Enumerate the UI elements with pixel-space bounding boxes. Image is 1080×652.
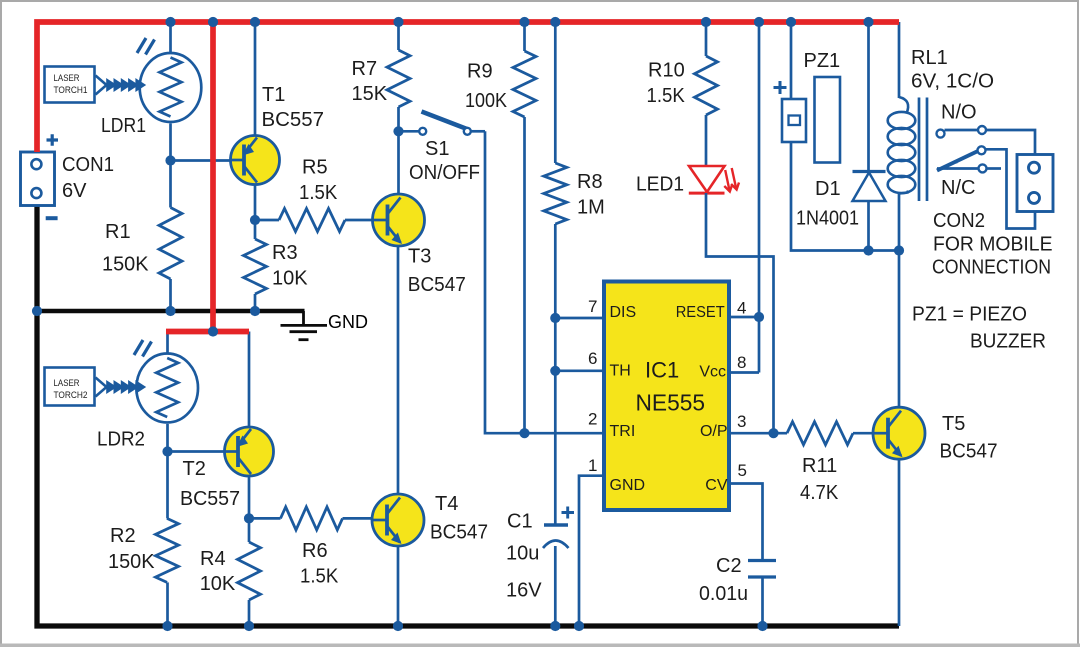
svg-text:BC557: BC557 <box>180 488 240 510</box>
svg-text:LDR1: LDR1 <box>101 115 146 137</box>
wire R2 to ground bus <box>166 582 169 626</box>
svg-text:CON2: CON2 <box>933 210 985 232</box>
LDR2 <box>136 354 198 423</box>
label R4 <box>200 548 236 595</box>
label PZ1 note <box>912 304 1046 353</box>
wire rail to R7 <box>397 22 400 50</box>
label PZ1 plus <box>774 81 787 94</box>
label T3 <box>408 246 466 297</box>
wire D1 anode to parallel bus <box>867 201 870 251</box>
wire red bar to T2 emitter <box>248 332 251 428</box>
node D junction T2/R4/R6 <box>244 513 254 523</box>
wire ground bus from CON1 minus <box>37 205 899 626</box>
svg-text:16V: 16V <box>506 580 542 602</box>
svg-text:5: 5 <box>738 461 747 480</box>
wire T4 emitter to ground bus <box>397 546 400 626</box>
pin 3 number <box>737 412 746 431</box>
node TRI junction <box>519 428 529 438</box>
label LDR1 <box>101 115 146 137</box>
svg-text:TH: TH <box>610 362 631 379</box>
svg-text:T3: T3 <box>408 246 431 268</box>
wire R4 to ground bus <box>248 600 251 626</box>
label LED1 <box>636 174 684 196</box>
svg-text:PZ1 = PIEZO: PZ1 = PIEZO <box>912 304 1027 326</box>
svg-text:BC547: BC547 <box>940 441 998 463</box>
resistor R4 <box>238 542 261 600</box>
wire pin 8 Vcc <box>729 371 759 374</box>
svg-text:T2: T2 <box>183 458 206 480</box>
label N/C <box>941 177 975 199</box>
svg-text:IC1: IC1 <box>645 357 679 382</box>
svg-text:CON1: CON1 <box>62 154 114 176</box>
svg-text:1N4001: 1N4001 <box>796 208 859 230</box>
svg-text:BC547: BC547 <box>408 274 466 296</box>
wire rail to R8 <box>554 22 557 163</box>
node O/P junction <box>768 428 778 438</box>
svg-text:7: 7 <box>588 297 597 316</box>
svg-text:N/O: N/O <box>941 102 977 124</box>
wire red bar above LDR2 stage <box>166 329 249 335</box>
wire R1 to ground bus <box>169 279 172 311</box>
svg-text:10K: 10K <box>200 573 236 595</box>
label T2 <box>180 458 240 510</box>
svg-text:C2: C2 <box>716 555 742 577</box>
label LDR2 <box>97 429 145 451</box>
wire T3 emitter to T4 collector <box>397 246 400 495</box>
svg-text:TORCH2: TORCH2 <box>54 390 88 401</box>
transistor T5 <box>873 407 925 459</box>
svg-text:T5: T5 <box>942 413 965 435</box>
resistor R2 <box>156 518 179 582</box>
svg-text:TORCH1: TORCH1 <box>54 85 88 96</box>
svg-text:DIS: DIS <box>610 304 637 321</box>
svg-text:0.01u: 0.01u <box>699 583 748 605</box>
wire LDR1 to node A <box>169 124 172 161</box>
resistor R3 <box>244 239 267 294</box>
pin 6 number <box>588 349 597 368</box>
svg-text:R10: R10 <box>648 60 685 82</box>
wire R7 to node S <box>397 107 400 131</box>
wire rail to R9 <box>523 22 526 51</box>
svg-text:4: 4 <box>737 299 746 318</box>
svg-text:1.5K: 1.5K <box>647 85 686 107</box>
switch S1 <box>399 112 486 135</box>
svg-text:LED1: LED1 <box>636 174 684 196</box>
laser flash marks LDR2 <box>134 340 152 357</box>
node relay bottom junction <box>894 245 904 255</box>
label T4 <box>430 493 488 544</box>
label R6 <box>300 540 339 588</box>
label R5 <box>299 157 338 205</box>
svg-text:N/C: N/C <box>941 177 975 199</box>
svg-text:PZ1: PZ1 <box>804 50 841 72</box>
wire T2 collector to node D <box>248 476 251 518</box>
IC1 pin name TH <box>610 362 631 379</box>
wire pin 4 RESET <box>729 316 759 319</box>
svg-text:C1: C1 <box>507 511 533 533</box>
svg-text:CONNECTION: CONNECTION <box>932 257 1051 279</box>
svg-text:1.5K: 1.5K <box>300 566 339 588</box>
svg-text:1: 1 <box>588 456 597 475</box>
IC1 pin name O/P <box>700 423 728 440</box>
wire ground branch to GND symbol <box>37 309 305 313</box>
wire T5 emitter to ground bus <box>898 459 901 626</box>
wire rail to R10 <box>705 22 708 56</box>
svg-text:4.7K: 4.7K <box>800 482 839 504</box>
svg-text:GND: GND <box>610 477 646 494</box>
svg-text:R3: R3 <box>272 242 298 264</box>
connector CON1 <box>21 152 55 206</box>
label R3 <box>272 242 308 290</box>
connector CON2 <box>1017 155 1053 212</box>
svg-text:R4: R4 <box>200 548 226 570</box>
svg-text:8: 8 <box>737 353 746 372</box>
svg-text:6: 6 <box>588 349 597 368</box>
IC1 pin name DIS <box>610 304 637 321</box>
wire T2 base <box>168 450 226 453</box>
svg-text:R9: R9 <box>467 61 493 83</box>
IC1 pin name CV <box>705 477 728 494</box>
resistor R5 <box>255 209 373 232</box>
label CON1 <box>62 154 114 202</box>
pin 2 number <box>588 410 597 429</box>
node D1 junction <box>863 245 873 255</box>
wire T1 collector to node B <box>254 185 257 221</box>
label C1 <box>506 511 542 602</box>
node red bar junction <box>208 326 218 336</box>
svg-text:RESET: RESET <box>676 304 725 321</box>
svg-text:R7: R7 <box>352 58 378 80</box>
svg-text:T1: T1 <box>262 84 285 106</box>
svg-text:6V: 6V <box>62 180 87 202</box>
svg-text:100K: 100K <box>465 90 508 112</box>
wire Vcc/RESET to rail <box>758 22 761 373</box>
wire rail to PZ1 <box>790 22 793 99</box>
wire node D to R4 <box>248 518 251 542</box>
IC1 pin name GND <box>610 477 646 494</box>
transistor T2 <box>225 427 274 476</box>
rail junction dots <box>165 17 873 27</box>
label T5 <box>940 413 998 463</box>
svg-text:LASER: LASER <box>54 73 80 84</box>
wire node B to R3 <box>254 220 257 239</box>
svg-text:R8: R8 <box>577 171 603 193</box>
node C junction LDR2/R2/T2 base <box>162 446 172 456</box>
svg-text:TRI: TRI <box>610 423 636 440</box>
label R8 <box>577 171 605 219</box>
pin 1 number <box>588 456 597 475</box>
pin 4 number <box>737 299 746 318</box>
laser torch1 box <box>45 67 95 103</box>
label N/O <box>941 102 977 124</box>
label T1 <box>262 84 325 131</box>
svg-text:BC557: BC557 <box>262 109 325 131</box>
svg-text:D1: D1 <box>815 178 841 200</box>
wire rail to LDR1 <box>169 22 172 52</box>
resistor R7 <box>387 50 410 107</box>
laser flash marks LDR1 <box>137 38 155 55</box>
label R9 <box>465 61 508 113</box>
wire C1 to ground bus <box>554 546 557 626</box>
wire R8 down to C1 <box>554 224 557 525</box>
wire red bar to LDR2 <box>166 332 169 353</box>
label RL1 <box>911 47 994 93</box>
wire PZ1 to parallel bus <box>791 142 899 251</box>
svg-text:10u: 10u <box>506 543 539 565</box>
LDR1 <box>140 53 202 122</box>
pin 8 number <box>737 353 746 372</box>
wire LDR2 to node C <box>166 424 169 452</box>
ground <box>281 311 369 340</box>
svg-text:RL1: RL1 <box>911 47 948 69</box>
label R1 <box>102 221 149 276</box>
svg-text:R6: R6 <box>302 540 328 562</box>
IC1 pin name RESET <box>676 304 725 321</box>
svg-text:150K: 150K <box>102 254 149 276</box>
svg-text:1.5K: 1.5K <box>299 182 338 204</box>
svg-text:Vcc: Vcc <box>699 363 726 380</box>
IC1 label <box>645 357 679 382</box>
svg-text:ON/OFF: ON/OFF <box>409 162 480 184</box>
bottom bus junction dots <box>162 621 767 631</box>
label C2 <box>699 555 748 605</box>
wire pin 3 O/P <box>729 432 787 435</box>
laser torch2 box <box>45 368 95 406</box>
wire node S to T3 collector <box>397 131 400 194</box>
svg-text:T4: T4 <box>435 493 458 515</box>
label R2 <box>108 525 155 573</box>
transistor T4 <box>372 494 424 546</box>
wire node A to R1 <box>169 161 172 208</box>
label R11 <box>800 455 839 504</box>
svg-text:BUZZER: BUZZER <box>970 331 1046 353</box>
label CON1 plus <box>47 134 59 146</box>
node RESET junction <box>754 312 764 322</box>
wire red branch to LDR2 stage <box>210 20 216 329</box>
wire relay coil to T5 collector <box>898 192 901 408</box>
node DIS junction <box>550 313 560 323</box>
svg-text:150K: 150K <box>108 551 155 573</box>
svg-text:NE555: NE555 <box>636 390 706 416</box>
node S junction R7/S1/T3 collector <box>393 126 403 136</box>
svg-text:2: 2 <box>588 410 597 429</box>
node TH junction <box>550 366 560 376</box>
wire R11 to T5 base <box>853 432 873 435</box>
wire pin 7 DIS <box>555 317 604 320</box>
resistor R6 <box>249 507 372 530</box>
relay core <box>919 98 927 202</box>
wire node C to R2 <box>166 452 169 519</box>
contact N/C <box>937 164 1001 172</box>
svg-text:6V, 1C/O: 6V, 1C/O <box>911 71 994 93</box>
wire T1 base <box>171 159 231 162</box>
svg-text:3: 3 <box>737 412 746 431</box>
svg-text:CV: CV <box>705 477 728 494</box>
label S1 <box>409 138 480 184</box>
node B junction T1/R5/R3 <box>250 215 260 225</box>
resistor R1 <box>159 208 182 280</box>
junction dots on ground branch <box>32 306 260 316</box>
node A junction LDR1/R1/T1 base <box>165 155 175 165</box>
laser beam arrows 2 <box>96 378 145 397</box>
svg-text:GND: GND <box>328 311 368 332</box>
op-amp U1 IC1 NE555 body <box>604 282 729 511</box>
capacitor C1 <box>543 507 574 549</box>
label D1 <box>796 178 859 230</box>
svg-text:O/P: O/P <box>700 423 728 440</box>
svg-text:R5: R5 <box>302 157 328 179</box>
wire rail to D1 <box>867 22 870 171</box>
wire LED1 cathode to O/P node <box>706 193 774 433</box>
wire R9 to TRI node <box>523 117 526 433</box>
svg-text:10K: 10K <box>272 268 308 290</box>
resistor R8 <box>544 163 567 224</box>
wire pin 6 TH <box>555 369 604 372</box>
label CON2 <box>932 210 1053 279</box>
svg-text:R1: R1 <box>105 221 131 243</box>
diode D1 <box>853 172 886 202</box>
svg-text:FOR MOBILE: FOR MOBILE <box>933 234 1053 256</box>
label R7 <box>352 58 388 105</box>
laser beam arrows 1 <box>96 76 145 95</box>
label PZ1 <box>804 50 841 72</box>
label R10 <box>647 60 686 108</box>
contact N/O <box>937 126 1036 155</box>
wire pin 1 GND to ground bus <box>579 476 604 626</box>
IC1 part number <box>636 390 706 416</box>
IC1 pin name TRI <box>610 423 636 440</box>
wire R3 to ground bus <box>254 294 257 311</box>
resistor R9 <box>513 51 536 117</box>
LED1 <box>689 166 739 193</box>
wire rail to relay coil <box>898 22 901 98</box>
svg-text:1M: 1M <box>577 197 605 219</box>
svg-text:S1: S1 <box>425 138 449 160</box>
relay RL1 coil <box>888 97 916 194</box>
wire S1 to TRI node <box>485 131 525 433</box>
wire rail to T1 emitter <box>254 22 257 136</box>
wire R10 to LED1 <box>705 115 708 165</box>
svg-text:LDR2: LDR2 <box>97 429 145 451</box>
transistor T3 <box>373 194 425 246</box>
piezo buzzer PZ1 <box>782 77 840 163</box>
svg-text:R11: R11 <box>802 455 837 477</box>
svg-text:LASER: LASER <box>54 378 80 389</box>
relay armature <box>937 146 1035 228</box>
resistor R10 <box>695 56 718 115</box>
label CON1 minus <box>46 216 58 220</box>
svg-text:BC547: BC547 <box>430 522 488 544</box>
wire TRI node to pin 2 <box>525 432 605 435</box>
resistor R11 <box>787 422 853 445</box>
pin 5 number <box>738 461 747 480</box>
transistor T1 <box>231 136 280 185</box>
capacitor C2 <box>748 561 776 578</box>
IC1 pin name Vcc <box>699 363 726 380</box>
wire C2 to ground bus <box>761 577 764 626</box>
svg-text:R2: R2 <box>110 525 136 547</box>
svg-text:15K: 15K <box>352 83 388 105</box>
wire pin 5 CV to C2 <box>729 484 763 561</box>
wire +6V red rail <box>37 22 899 152</box>
pin 7 number <box>588 297 597 316</box>
